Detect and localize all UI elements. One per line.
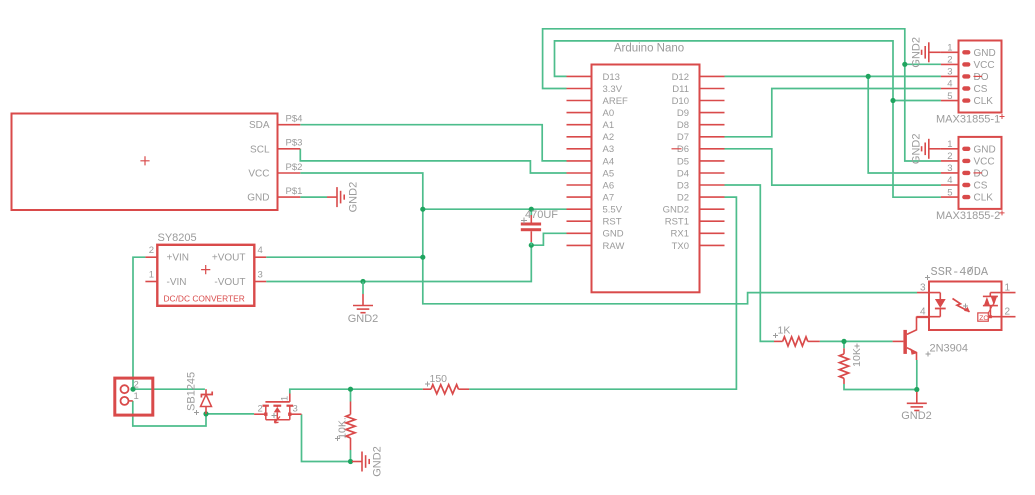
IC U1 display/sensor block outline: [12, 114, 278, 211]
junction dot 470UF bottom: [529, 243, 534, 248]
wire 470UF bottom to Arduino GND pin: [531, 233, 566, 245]
svg-text:A4: A4: [603, 156, 615, 167]
pin GND stub (left): [567, 232, 592, 234]
origin cross MAX31855-2: [1000, 210, 1005, 215]
pin 2 stub of Q2: [254, 413, 266, 415]
ground GND2 below -VOUT rail: [362, 282, 364, 295]
svg-text:+VIN: +VIN: [167, 253, 190, 264]
connector pin 1 stub: [129, 400, 133, 402]
svg-text:1: 1: [149, 270, 154, 281]
svg-text:1: 1: [1005, 283, 1011, 294]
regulator U2 SY8205 outline: [157, 245, 254, 306]
diode D1 SB1245 schottky: [205, 389, 207, 394]
pin pad 1: [962, 50, 970, 54]
svg-text:CS: CS: [974, 84, 988, 95]
svg-text:P$3: P$3: [286, 138, 303, 149]
origin cross SSR interior: [963, 304, 968, 309]
pin 5 stub of MAX31855-2: [941, 196, 959, 198]
svg-text:4: 4: [947, 175, 952, 186]
svg-text:SSR-40DA: SSR-40DA: [931, 265, 989, 279]
svg-text:CLK: CLK: [974, 193, 994, 204]
pin 3 stub of SSR: [917, 292, 940, 294]
svg-text:+VOUT: +VOUT: [212, 253, 246, 264]
svg-text:RST: RST: [603, 217, 622, 228]
svg-text:-VOUT: -VOUT: [214, 277, 245, 288]
connector J1 power input: [115, 378, 153, 415]
svg-text:D10: D10: [672, 96, 689, 107]
pin D4 stub (right): [700, 172, 725, 174]
svg-text:A3: A3: [603, 144, 615, 155]
svg-text:P$1: P$1: [286, 186, 303, 197]
resistor R1 1K: [774, 340, 783, 342]
wire net CS2: Arduino D6 to MAX31855-2 CS: [725, 149, 941, 185]
MOSFET Q2 body: [265, 401, 289, 403]
pin 2 +VIN stub: [145, 256, 157, 258]
junction dot bottom ground node: [348, 459, 353, 464]
pin 5 stub of MAX31855-1: [941, 100, 959, 102]
svg-text:2: 2: [947, 55, 952, 66]
pin D7 stub (right): [700, 136, 725, 138]
wire net +12V: SY8205 pin2 +VIN down to connector: [133, 257, 145, 389]
SSR optical arrow: [953, 299, 970, 312]
svg-text:GND2: GND2: [901, 410, 932, 422]
svg-text:D8: D8: [677, 120, 689, 131]
wire 1K to transistor base with 10K tap: [820, 340, 893, 342]
pin 2 stub of SSR: [990, 316, 1015, 318]
resistor R3 150: [423, 388, 431, 390]
svg-text:1K: 1K: [778, 325, 791, 337]
svg-text:GND2: GND2: [911, 134, 923, 165]
junction dot 10K gate pulldown top: [348, 387, 353, 392]
svg-text:1: 1: [947, 139, 952, 150]
svg-text:RAW: RAW: [603, 241, 625, 252]
resistor R4 10K gate pulldown: [350, 402, 352, 415]
ground GND2 at U1 GND pin: [327, 196, 337, 198]
svg-text:3.3V: 3.3V: [603, 84, 623, 95]
pin D9 stub (right): [700, 112, 725, 114]
wire VCC1 branch to MAX31855-1 pin 2: [905, 63, 941, 65]
pin D13 stub (left): [567, 75, 592, 77]
origin mark through D6: [672, 148, 682, 150]
pin D12 stub (right): [700, 75, 725, 77]
resistor R2 10K base pulldown: [843, 348, 845, 354]
wire branch 5V node vertical: [422, 209, 424, 257]
pin 2 stub of MAX31855-1: [941, 63, 959, 65]
origin mark through DO name: [974, 172, 983, 174]
pin RST1 stub (right): [700, 220, 725, 222]
capacitor C1 470UF polarized: [530, 215, 532, 223]
pin 1 stub of MAX31855-2: [941, 148, 959, 150]
svg-text:D13: D13: [603, 72, 620, 83]
pin RAW stub (left): [567, 244, 592, 246]
wire net +5V: 5V rail to Arduino 5.5V pin and 470UF: [423, 208, 567, 210]
svg-text:RST1: RST1: [665, 217, 689, 228]
origin cross U1: [140, 156, 149, 165]
svg-text:SB1245: SB1245: [186, 372, 198, 411]
pin D2 stub (right): [700, 196, 725, 198]
svg-text:2N3904: 2N3904: [930, 343, 969, 355]
svg-text:150: 150: [430, 373, 448, 385]
pin 3 stub of MAX31855-2: [941, 172, 959, 174]
svg-text:4: 4: [947, 79, 952, 90]
SSR internal triac: [989, 293, 991, 297]
svg-text:TX0: TX0: [672, 241, 689, 252]
junction dot MISO branch: [866, 74, 871, 79]
wire net D3 to 1K resistor: [725, 185, 775, 341]
pin RST stub (left): [567, 220, 592, 222]
pin pad 1: [962, 147, 970, 151]
relay K1 SSR-40DA outline: [929, 282, 1002, 331]
wire MOSFET pin 3 to ground node: [302, 414, 351, 461]
svg-text:D5: D5: [677, 156, 689, 167]
svg-text:-VIN: -VIN: [167, 277, 187, 288]
pin pad 3: [962, 171, 970, 175]
junction dot emitter ground node: [914, 387, 919, 392]
svg-text:3: 3: [258, 270, 263, 281]
wire net 3.3V: Arduino 3.3V over top to MAX31855 VCC pins: [543, 29, 941, 161]
svg-text:A6: A6: [603, 180, 615, 191]
svg-text:5.5V: 5.5V: [603, 205, 623, 216]
svg-text:5: 5: [947, 91, 952, 102]
pin pad 4: [962, 86, 970, 90]
wire net D2 to 150 resistor: [469, 197, 736, 389]
svg-text:2: 2: [258, 403, 263, 414]
pin 5.5V stub (left): [567, 208, 592, 210]
pin 3 stub of MAX31855-1: [941, 75, 959, 77]
pin 2 stub of MAX31855-2: [941, 160, 959, 162]
origin cross SSR label: [925, 275, 930, 280]
wire 10K base resistor leads: [844, 341, 917, 389]
svg-text:2: 2: [947, 151, 952, 162]
SSR internal LED: [939, 293, 941, 299]
svg-text:DC/DC CONVERTER: DC/DC CONVERTER: [164, 294, 245, 304]
wire MOSFET gate node to 10K and 150 resistor: [290, 389, 423, 393]
pin pad 3: [962, 74, 970, 78]
svg-text:D7: D7: [677, 132, 689, 143]
wire CLK1 branch to MAX31855-1 pin 5: [893, 100, 941, 102]
svg-text:VCC: VCC: [974, 156, 995, 167]
svg-text:DO: DO: [974, 72, 989, 83]
svg-text:2: 2: [1005, 307, 1011, 318]
transistor Q1 2N3904: [903, 330, 907, 354]
pin pad 4: [962, 183, 970, 187]
pin 4 +VOUT stub: [254, 256, 266, 258]
pin 4 stub of MAX31855-2: [941, 184, 959, 186]
svg-text:DO: DO: [974, 168, 989, 179]
wire net SDA: P$4 to Arduino A4: [300, 125, 566, 161]
svg-text:D2: D2: [677, 193, 689, 204]
wire net +VOUT: SY8205 pin4 to 5V node and down to SSR: [266, 257, 917, 304]
pin D5 stub (right): [700, 160, 725, 162]
pin A5 stub (left): [567, 172, 592, 174]
svg-text:10K.: 10K.: [337, 417, 349, 439]
pin D6 stub (right): [700, 148, 725, 150]
connector pin 1 circle: [121, 397, 129, 405]
svg-text:10K: 10K: [851, 348, 863, 367]
svg-text:A1: A1: [603, 120, 615, 131]
svg-text:2: 2: [134, 379, 139, 390]
pin 1 -VIN stub: [145, 281, 157, 283]
svg-text:MAX31855-1: MAX31855-1: [936, 114, 1000, 126]
pin A1 stub (left): [567, 124, 592, 126]
pin SDA of U1: [278, 124, 301, 126]
pin D8 stub (right): [700, 124, 725, 126]
svg-text:1: 1: [134, 391, 139, 402]
junction dot +VOUT node: [420, 255, 425, 260]
svg-text:VCC: VCC: [974, 60, 995, 71]
ground GND2 at MAX31855-1 pin 1: [929, 51, 941, 53]
origin cross MAX31855-1: [1000, 114, 1005, 119]
pin VCC of U1: [278, 172, 301, 174]
svg-text:CS: CS: [974, 181, 988, 192]
svg-text:4: 4: [920, 307, 926, 318]
svg-text:A7: A7: [603, 193, 615, 204]
junction dot 10K base node: [841, 339, 846, 344]
svg-text:A2: A2: [603, 132, 615, 143]
svg-text:RX1: RX1: [671, 229, 689, 240]
pin 3 -VOUT stub: [254, 281, 266, 283]
svg-text:SY8205: SY8205: [158, 232, 197, 244]
wire net VCC: P$2 down to 5V node: [300, 173, 423, 209]
pin 3.3V stub (left): [567, 88, 592, 90]
IC MAX31855-1 outline: [959, 41, 1002, 113]
origin cross SY8205: [201, 265, 210, 274]
svg-text:3: 3: [920, 283, 926, 294]
svg-text:CLK: CLK: [974, 96, 994, 107]
wire SB1245 anode to MOSFET pin 2 and connector pin 1: [133, 401, 254, 426]
pin GND of U1: [278, 196, 301, 198]
svg-text:GND2: GND2: [663, 205, 689, 216]
svg-text:D11: D11: [672, 84, 689, 95]
wire net SCL: P$3 to Arduino A5: [300, 149, 566, 173]
ground GND2 at emitter: [916, 392, 918, 404]
wire net CS1: Arduino D7 to MAX31855-1 CS: [725, 89, 941, 137]
svg-text:GND: GND: [247, 193, 269, 204]
svg-text:SCL: SCL: [250, 144, 270, 155]
pin TX0 stub (right): [700, 244, 725, 246]
pin 3 stub of Q2: [290, 413, 302, 415]
svg-text:AREF: AREF: [603, 96, 629, 107]
IC MAX31855-2 outline: [959, 137, 1002, 209]
MOSFET substrate arrow: [275, 417, 281, 423]
pin AREF stub (left): [567, 100, 592, 102]
pin SCL of U1: [278, 148, 301, 150]
svg-text:1: 1: [280, 396, 291, 401]
pin A4 stub (left): [567, 160, 592, 162]
svg-text:SDA: SDA: [249, 120, 270, 131]
pin A7 stub (left): [567, 196, 592, 198]
pin D3 stub (right): [700, 184, 725, 186]
pin D11 stub (right): [700, 88, 725, 90]
wire net SCK: Arduino D13 over top to MAX31855 CLK pins: [555, 41, 941, 197]
pin pad 5: [962, 98, 970, 102]
svg-text:1: 1: [947, 43, 952, 54]
svg-text:VCC: VCC: [248, 169, 269, 180]
svg-text:470UF: 470UF: [525, 209, 558, 221]
wire MISO branch down to MAX31855-2 DO: [868, 76, 941, 173]
junction dot VCC1 branch: [902, 62, 907, 67]
wire net GND: P$1 to ground: [300, 196, 327, 198]
svg-text:4: 4: [258, 245, 263, 256]
junction dot 470UF top: [529, 207, 534, 212]
svg-text:2: 2: [149, 245, 154, 256]
svg-text:D6: D6: [677, 144, 689, 155]
pin 1 stub of MAX31855-1: [941, 51, 959, 53]
svg-text:GND: GND: [603, 229, 624, 240]
origin cross 1K: [773, 333, 778, 338]
origin cross Q2: [272, 413, 277, 418]
svg-text:5: 5: [947, 187, 952, 198]
svg-text:A0: A0: [603, 108, 615, 119]
pin D10 stub (right): [700, 100, 725, 102]
pin pad 2: [962, 62, 970, 66]
wire net GND2: SY8205 pin3 -VOUT rail: [266, 245, 531, 281]
ground GND2 bottom node: [352, 461, 362, 463]
pin pad 5: [962, 195, 970, 199]
origin mark through DO name: [974, 75, 983, 77]
pin GND2 stub (right): [700, 208, 725, 210]
svg-text:GND2: GND2: [348, 313, 379, 325]
svg-text:P$2: P$2: [286, 162, 303, 173]
pin 4 stub of MAX31855-1: [941, 88, 959, 90]
origin cross 470UF: [521, 218, 527, 224]
pin RX1 stub (right): [700, 232, 725, 234]
IC U3 Arduino Nano outline: [592, 65, 700, 293]
svg-text:GND2: GND2: [911, 37, 923, 68]
wire +12V connector to SB1245 cathode: [133, 388, 205, 390]
svg-text:P$4: P$4: [286, 114, 303, 125]
pin 1 stub of SSR: [990, 292, 1015, 294]
pin pad 2: [962, 159, 970, 163]
SSR zero-cross box: [978, 313, 989, 321]
junction dot SB1245 anode: [203, 411, 208, 416]
svg-text:GND2: GND2: [348, 182, 360, 213]
svg-text:D4: D4: [677, 168, 689, 179]
wire 470UF top lead to 5V rail: [530, 209, 532, 215]
svg-text:ZC: ZC: [979, 315, 988, 322]
svg-text:3: 3: [947, 67, 952, 78]
pin 4 stub of SSR: [917, 316, 941, 318]
wire transistor emitter to ground: [916, 360, 918, 390]
pin A2 stub (left): [567, 136, 592, 138]
wire net MISO: Arduino D12 to MAX31855 DO pins: [725, 75, 941, 77]
wire 10K pulldown vertical leads: [350, 389, 352, 461]
origin cross 150: [425, 382, 430, 387]
junction dot connector pin 2: [130, 387, 135, 392]
svg-text:GND2: GND2: [372, 446, 384, 477]
svg-text:3: 3: [293, 403, 298, 414]
svg-text:D12: D12: [672, 72, 689, 83]
svg-text:MAX31855-2: MAX31855-2: [936, 210, 1000, 222]
origin cross SB1245: [194, 410, 199, 415]
ground GND2 at MAX31855-2 pin 1: [929, 148, 941, 150]
svg-text:3: 3: [947, 163, 952, 174]
svg-text:GND: GND: [974, 48, 996, 59]
svg-text:A5: A5: [603, 168, 615, 179]
svg-text:Arduino Nano: Arduino Nano: [614, 43, 684, 55]
svg-text:GND: GND: [974, 144, 996, 155]
pin A0 stub (left): [567, 112, 592, 114]
junction dot 5V node at VCC drop: [420, 207, 425, 212]
svg-text:D9: D9: [677, 108, 689, 119]
pin A6 stub (left): [567, 184, 592, 186]
junction dot -VOUT ground node: [360, 279, 365, 284]
connector pin 2 circle: [121, 385, 129, 393]
origin cross 2N3904: [926, 352, 931, 357]
pin A3 stub (left): [567, 148, 592, 150]
svg-text:D3: D3: [677, 180, 689, 191]
junction dot CLK1 branch: [890, 98, 895, 103]
